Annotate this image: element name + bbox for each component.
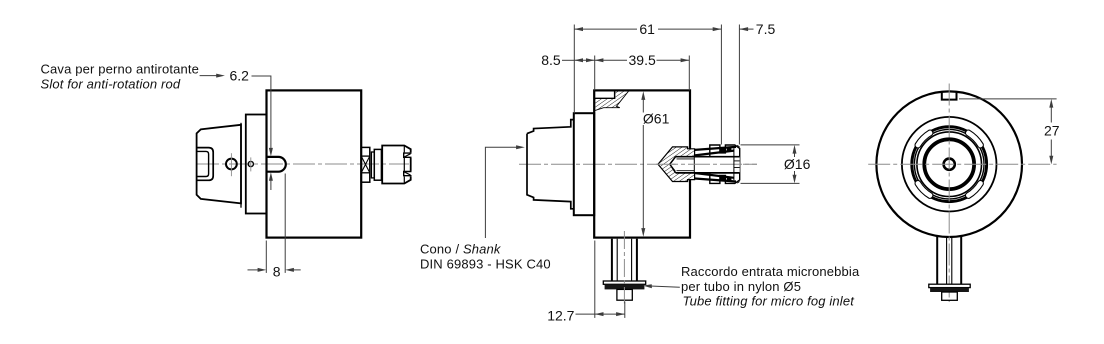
slot recess white box: [594, 98, 615, 100]
right view centerline horizontal: [868, 163, 1056, 165]
fitting lower tube: [617, 289, 632, 300]
body middle: [594, 90, 690, 237]
notch fill bottom: [720, 176, 726, 182]
svg-text:8: 8: [273, 264, 281, 280]
dim 61 line: [574, 28, 637, 30]
dim 39.5 line: [595, 59, 627, 61]
left view annotations: [200, 74, 301, 273]
svg-text:Ø16: Ø16: [784, 156, 811, 172]
main body: [267, 90, 362, 237]
fitting outer tube: [611, 239, 613, 282]
collet wedge top: [695, 147, 736, 150]
12.7 extension lines: [594, 241, 596, 318]
centerline middle view: [519, 163, 757, 165]
flange circle: [902, 117, 997, 212]
leader to Raccordo label: [650, 286, 680, 287]
hatched fitting body: [658, 147, 695, 182]
6.2 leader polyline: [252, 76, 271, 150]
nut right hatch corners: [736, 145, 740, 148]
center hole: [944, 159, 955, 170]
ext line body right: [688, 56, 690, 91]
12.7 dim line + arrows: [576, 313, 595, 315]
svg-text:Cono / Shank: Cono / Shank: [420, 241, 502, 256]
nut end cap line: [733, 148, 735, 180]
shank right edge line: [240, 123, 242, 208]
hole crosshair: [230, 153, 232, 176]
fitting centerline vertical: [623, 231, 625, 304]
svg-text:8.5: 8.5: [541, 52, 561, 68]
svg-text:Slot for anti-rotation rod: Slot for anti-rotation rod: [41, 77, 181, 92]
nut outer ring thick: [912, 127, 987, 202]
flange plate: [246, 115, 267, 214]
ext line flange left (61 + 8.5): [573, 25, 575, 114]
top slot notch: [942, 92, 957, 100]
thread end mark bottom: [727, 178, 732, 181]
leader arrow to 6.2: [200, 75, 218, 77]
Ø16 dimension: [741, 145, 800, 184]
svg-text:6.2: 6.2: [230, 68, 250, 84]
fitting flange plate: [603, 281, 645, 284]
ring mid: [914, 129, 984, 199]
spacer plate B: [371, 152, 374, 178]
nut bottom notch: [404, 171, 413, 177]
centerline left view: [197, 163, 409, 165]
nut face inner line: [403, 146, 405, 183]
ext line body left: [594, 56, 596, 91]
fitting flange dark band: [605, 284, 645, 289]
shank HSK taper (side): [197, 125, 241, 204]
dim 7.5 arrow + leader: [739, 28, 753, 30]
ext line nozzle groove: [720, 25, 722, 145]
small circle crosshair: [250, 157, 252, 171]
collet circle thick: [924, 139, 974, 189]
nut body: [710, 145, 740, 183]
hatched slot section: [595, 91, 629, 111]
collet nut (side): [382, 146, 411, 184]
outer circle: [876, 91, 1022, 237]
dim 8.5 leader + arrows: [562, 59, 574, 61]
8 dim extension lines: [265, 241, 267, 273]
svg-text:Tube fitting for micro fog inl: Tube fitting for micro fog inlet: [683, 294, 856, 309]
collet block with X: [361, 147, 370, 182]
Ø61 dimension: [641, 91, 645, 237]
drive slot C-notch on shank: [197, 148, 214, 181]
hole on shank: [226, 159, 237, 170]
thread end mark top: [727, 147, 732, 150]
27 dim ext line: [959, 98, 1057, 100]
svg-text:Ø61: Ø61: [643, 110, 670, 126]
svg-text:Cava per perno antirotante: Cava per perno antirotante: [41, 62, 200, 77]
nut top notch: [404, 152, 413, 158]
right view bottom fitting: [929, 236, 970, 300]
anti-rotation slot (D shape): [267, 157, 286, 172]
right view centerline vertical: [948, 84, 950, 303]
svg-text:27: 27: [1044, 122, 1060, 138]
leader from Cono label to shank: [485, 145, 524, 238]
fitting inner bore lines: [616, 239, 618, 281]
svg-text:DIN 69893 - HSK C40: DIN 69893 - HSK C40: [420, 257, 551, 272]
4 nut slots: [915, 130, 983, 198]
6.2 top arrow: [269, 148, 273, 157]
small circle on flange: [248, 161, 253, 166]
collet wedge bottom: [695, 179, 736, 182]
notch fill top: [720, 147, 726, 153]
svg-text:39.5: 39.5: [629, 52, 656, 68]
8 dim arrows: [248, 269, 259, 271]
shank profile middle: [527, 120, 574, 209]
svg-text:7.5: 7.5: [756, 21, 776, 37]
6.2 bottom arrow: [269, 172, 273, 181]
svg-text:Raccordo entrata micronebbia: Raccordo entrata micronebbia: [681, 264, 860, 279]
spacer plate C: [374, 149, 381, 180]
ring inner: [917, 132, 982, 197]
flange middle: [574, 113, 594, 215]
ext line nozzle face: [738, 25, 740, 145]
tube: [676, 157, 740, 173]
svg-text:61: 61: [639, 21, 655, 37]
svg-text:per tubo in nylon Ø5: per tubo in nylon Ø5: [681, 279, 801, 294]
svg-text:12.7: 12.7: [547, 307, 574, 323]
nozzle centerline: [656, 163, 757, 165]
27 dim line + arrows: [1050, 105, 1052, 123]
